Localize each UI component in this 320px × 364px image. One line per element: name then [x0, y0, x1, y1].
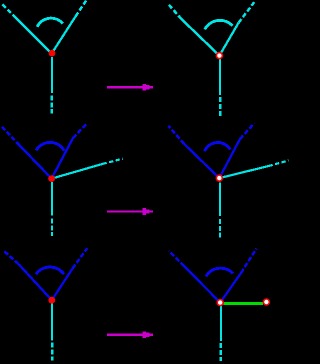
fig3 right ray solid (blue): [52, 138, 73, 179]
fig3 angle arc (blue): [36, 142, 64, 150]
fig2 left ray dashed tip: [168, 4, 181, 19]
fig1 right ray solid: [52, 17, 76, 54]
fig4 left ray dashed tip (blue): [168, 126, 184, 144]
fig2 right ray dashed tip: [239, 2, 255, 23]
fig1 down ray dashed tip: [51, 95, 53, 113]
fig1 angle arc: [37, 18, 63, 27]
figure 3: middle-left, blue V + cyan rays, filled vertex: [2, 123, 123, 236]
fig4 shallow ray dashed tip (cyan): [269, 161, 289, 167]
fig3 shallow ray dashed tip (cyan): [103, 159, 123, 164]
fig6 second dot (open): [263, 299, 269, 305]
fig6 left ray solid (blue): [184, 266, 220, 303]
fig6 down ray solid (cyan): [220, 306, 222, 341]
fig4 down ray solid (cyan): [219, 182, 221, 216]
fig3 down ray dashed tip (cyan): [51, 218, 53, 236]
figure 1: top-left, cyan Y with filled vertex: [2, 0, 87, 114]
fig2 vertex dot (open): [216, 53, 222, 59]
fig6 vertex dot (open): [217, 300, 223, 306]
fig5 left ray dashed tip (blue): [4, 251, 19, 264]
fig4 vertex dot (open): [216, 175, 222, 181]
fig3 down ray solid (cyan): [51, 182, 53, 216]
fig5 right ray dashed tip (blue): [73, 248, 88, 268]
fig6 down ray dashed tip (cyan): [220, 343, 222, 361]
fig6 angle arc (blue): [206, 268, 233, 276]
fig2 down ray solid: [219, 59, 221, 95]
figure 4: middle-right, blue V + cyan rays, open vertex: [168, 123, 288, 238]
fig6 right ray dashed tip (blue): [241, 249, 257, 274]
fig3 left ray dashed tip (blue): [2, 127, 19, 145]
arrow 3 (magenta): [107, 331, 153, 338]
fig2 right ray solid: [219, 23, 238, 56]
fig2 down ray dashed tip: [219, 97, 221, 116]
arrow 2 (magenta): [107, 208, 153, 215]
fig1 left ray solid: [16, 18, 52, 54]
fig3 left ray solid (blue): [20, 145, 52, 178]
fig4 angle arc (blue): [205, 142, 231, 151]
fig2 left ray solid: [182, 19, 220, 55]
fig1 vertex dot (filled): [49, 50, 56, 57]
figure 6: bottom-right, blue V + green segment, open vertices: [169, 249, 270, 362]
arrow 1 (magenta): [107, 84, 153, 91]
figure 5: bottom-left, blue V + cyan down ray, filled vertex: [4, 248, 87, 360]
fig4 right ray solid (blue): [219, 139, 240, 178]
fig5 down ray solid (cyan): [51, 304, 53, 341]
fig3 shallow ray solid (cyan): [52, 164, 103, 179]
fig1 right ray dashed tip: [76, 0, 87, 17]
fig5 down ray dashed tip (cyan): [51, 343, 53, 361]
fig1 down ray solid: [51, 57, 53, 93]
fig6 right ray solid (blue): [220, 273, 241, 303]
fig5 angle arc (blue): [36, 267, 64, 274]
fig4 down ray dashed tip (cyan): [219, 219, 221, 239]
fig6 left ray dashed tip (blue): [169, 251, 184, 266]
fig5 left ray solid (blue): [19, 264, 52, 300]
fig4 shallow ray solid (cyan): [219, 166, 268, 178]
fig4 right ray dashed tip (blue): [240, 123, 254, 139]
fig5 vertex dot (filled): [48, 297, 55, 304]
fig3 right ray dashed tip (blue): [73, 123, 88, 138]
fig3 vertex dot (filled): [48, 175, 55, 182]
fig1 left ray dashed tip: [2, 4, 16, 18]
fig5 right ray solid (blue): [52, 269, 73, 301]
fig4 left ray solid (blue): [184, 144, 219, 178]
fig6 green segment: [224, 302, 264, 305]
figure 2: top-right, cyan Y with open vertex: [168, 2, 254, 116]
fig2 angle arc: [205, 20, 233, 29]
